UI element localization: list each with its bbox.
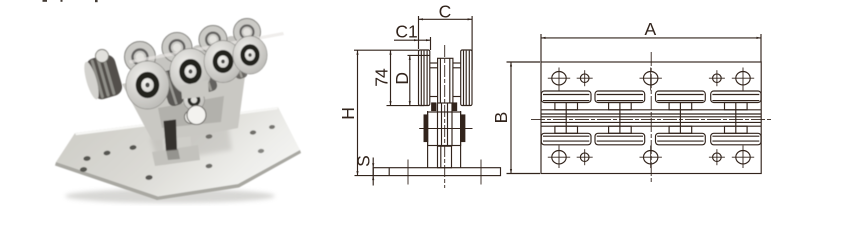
hole large bottom-centre: [640, 146, 662, 169]
wheel axis verticals: [565, 103, 567, 134]
hole large top-left: [548, 68, 570, 91]
hub tabs top: [555, 103, 578, 110]
photo carriage shadow on plate: [150, 126, 232, 162]
photo bright bolt head: [187, 106, 206, 125]
wheel slot top 1: [541, 91, 591, 103]
extension line roller top: [354, 49, 419, 51]
photo gap filler metal: [153, 36, 241, 74]
photo base plate top surface: [56, 107, 300, 197]
wheel slot bottom 2: [595, 133, 645, 145]
photo guide wheel cover: [181, 80, 209, 99]
svg-text:A: A: [645, 19, 657, 39]
bolt hole centrelines: [407, 160, 409, 185]
photo front wheel 1: [126, 61, 169, 109]
svg-text:74: 74: [371, 68, 391, 87]
dimension B: [510, 62, 512, 174]
photo plate bolt holes back row: [83, 125, 275, 162]
centre hub block: [438, 58, 453, 103]
dimension C1: [394, 39, 431, 41]
photo third tread between wheels: [195, 59, 218, 94]
photo lower guide wheel: [184, 90, 205, 111]
photo front wheel 3: [204, 41, 242, 83]
hole small bottom-right: [709, 149, 725, 165]
svg-text:B: B: [491, 112, 511, 124]
extension line roller bottom: [387, 105, 425, 107]
base plate (front view): [373, 168, 500, 176]
photo left wheel tread (edge-on cylinder): [81, 53, 124, 102]
horizontal centreline: [531, 119, 772, 121]
guide wheel body: [428, 112, 461, 146]
photo top axle highlight bar: [129, 32, 284, 64]
svg-text:D: D: [392, 72, 412, 85]
photo second tread between wheels: [159, 68, 185, 107]
hole large bottom-left: [548, 146, 570, 169]
svg-text:C1: C1: [395, 21, 417, 41]
wheel slot bottom 1: [541, 133, 591, 145]
hole large top-right: [732, 68, 754, 91]
photo ground shadow: [65, 189, 275, 203]
hub tabs bottom: [555, 126, 578, 133]
photo bracket bolt: [185, 111, 198, 124]
dimension A: [541, 37, 761, 39]
roller left (wheel pair, edge view): [419, 50, 430, 106]
photo bracket shading: [158, 96, 224, 128]
axle connector lines: [430, 62, 438, 64]
roller right (wheel pair, edge view): [461, 50, 472, 106]
dimension D: [409, 55, 411, 105]
central rail band lines: [541, 109, 761, 111]
wheel slot top 2: [595, 91, 645, 103]
guide wheel axis: [419, 128, 472, 130]
front view labels: [338, 1, 657, 166]
dimension S: [372, 158, 374, 186]
guide wheel black pads: [424, 115, 428, 142]
svg-text:S: S: [353, 155, 373, 167]
photo fourth tread between wheels: [227, 48, 249, 81]
lock nuts (black): [432, 103, 436, 111]
photo front wheel 4: [233, 36, 267, 74]
hole large top-centre: [640, 68, 662, 91]
hole small top-left: [577, 70, 593, 86]
wheel slot bottom 4: [711, 133, 761, 145]
wheel slot top 3: [656, 91, 706, 103]
dimension 74: [390, 50, 392, 105]
photo plate bolt holes front row: [80, 148, 265, 180]
main vertical centerline: [444, 45, 446, 188]
hole small top-right: [709, 70, 725, 86]
extension line plate bottom left: [355, 175, 374, 177]
hole large bottom-right: [732, 146, 754, 169]
photo plate front side face: [55, 150, 301, 200]
top view plate: [541, 62, 761, 174]
photo back wheel tops (far column): [125, 19, 261, 73]
photo pedestal column: [160, 92, 192, 165]
svg-text:C: C: [439, 1, 452, 21]
wheel slot bottom 3: [656, 133, 706, 145]
bracket arms: [427, 111, 429, 168]
lower stem: [438, 146, 452, 168]
photo plate back edge highlight: [75, 107, 278, 135]
extension line D top: [408, 54, 430, 56]
svg-text:H: H: [338, 107, 358, 120]
wheel slot top 4: [711, 91, 761, 103]
cropped text remnants at top edge: [43, 0, 98, 2]
dimension H: [357, 50, 359, 175]
photo left tread top cap: [96, 50, 109, 63]
vertical centreline: [650, 52, 652, 184]
shaft lines: [437, 103, 439, 146]
photo front wheel 2: [170, 49, 211, 95]
dimension C: [419, 18, 473, 20]
photo pedestal dark slot: [164, 120, 178, 152]
photo pedestal foot: [152, 145, 200, 166]
hole small bottom-left: [577, 149, 593, 165]
photo bracket body: [122, 54, 248, 140]
photo slot shadow to plate: [166, 149, 180, 160]
